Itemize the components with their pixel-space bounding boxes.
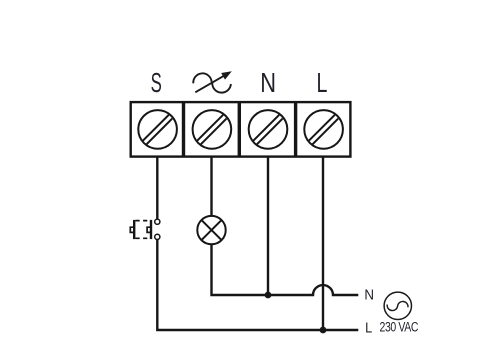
screw terminal N bbox=[249, 110, 288, 149]
svg-text:L: L bbox=[365, 320, 372, 336]
label L (supply) bbox=[365, 320, 372, 336]
push button S1 bbox=[130, 219, 160, 239]
label L (terminal 4) bbox=[317, 68, 328, 99]
screw terminal S bbox=[138, 110, 177, 149]
contact bottom bbox=[155, 234, 160, 239]
linkage dashed top bbox=[136, 220, 150, 222]
screw terminal L bbox=[304, 110, 343, 149]
junction dot N bbox=[265, 292, 272, 299]
label S (terminal 1) bbox=[151, 67, 162, 99]
wire S terminal to push button bbox=[156, 157, 158, 219]
contact top bbox=[155, 219, 160, 224]
sine wave bbox=[387, 301, 408, 310]
spring bracket left bbox=[130, 227, 133, 232]
lamp E1 bbox=[197, 216, 225, 244]
svg-text:L: L bbox=[317, 68, 328, 99]
svg-text:N: N bbox=[364, 286, 374, 303]
wire L terminal down to L line bbox=[322, 157, 324, 330]
AC source G1 bbox=[384, 292, 411, 319]
linkage dashed bottom bbox=[136, 237, 150, 239]
label N (terminal 3) bbox=[260, 67, 276, 98]
svg-text:S: S bbox=[151, 67, 162, 99]
wire lamp to N line with hop over L wire bbox=[212, 244, 359, 295]
wire dimmer terminal to lamp bbox=[210, 157, 212, 216]
terminal block outline bbox=[131, 102, 351, 157]
screw terminal dimmer bbox=[193, 110, 232, 149]
divider S/dimmer bbox=[182, 102, 185, 157]
actuator plate left bbox=[133, 220, 135, 239]
divider dimmer/N bbox=[238, 102, 241, 157]
actuator plate right bbox=[150, 220, 152, 239]
spring bracket right bbox=[147, 227, 150, 232]
wire push button down to L line bbox=[157, 240, 358, 330]
divider N/L bbox=[294, 102, 297, 157]
junction dot L bbox=[320, 327, 327, 334]
label 230 VAC bbox=[380, 319, 419, 335]
dimmer symbol (terminal 2 label) bbox=[193, 71, 232, 92]
wire N terminal down to N line bbox=[267, 157, 269, 295]
svg-text:230 VAC: 230 VAC bbox=[380, 319, 419, 335]
label N (supply) bbox=[364, 286, 374, 303]
svg-text:N: N bbox=[260, 67, 276, 98]
